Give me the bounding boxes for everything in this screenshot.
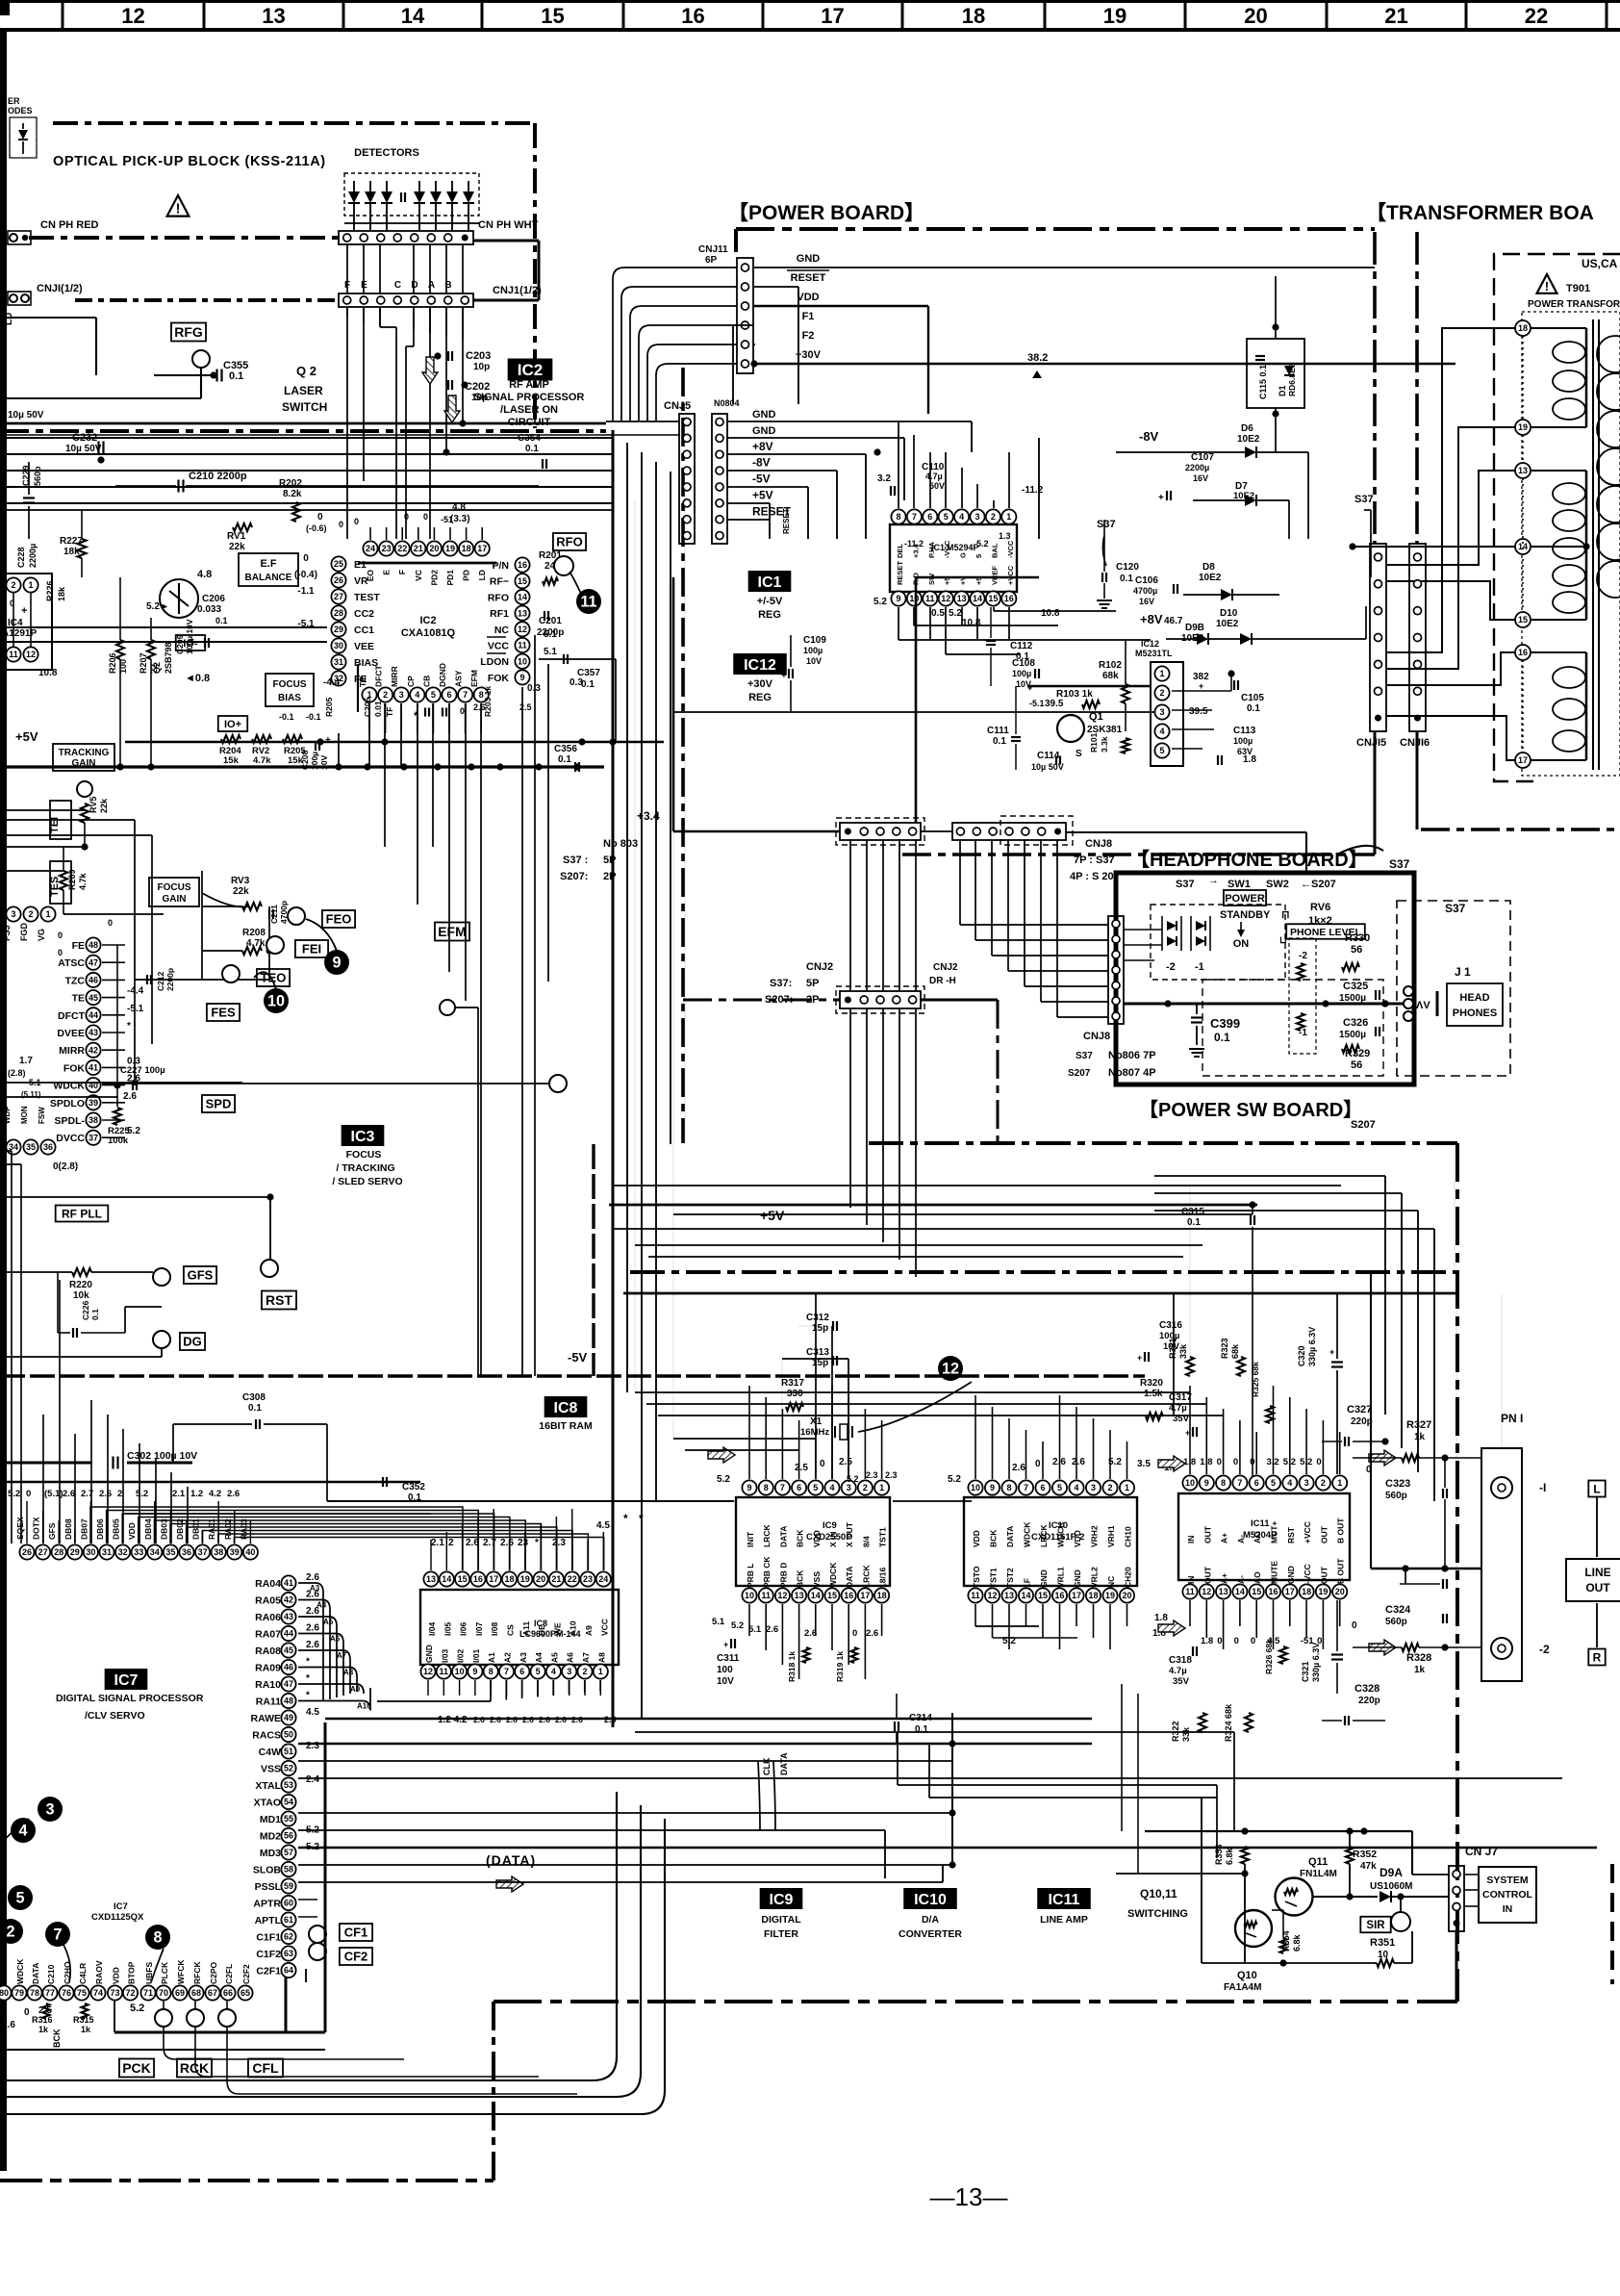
svg-text:M5231TL: M5231TL: [1135, 649, 1173, 658]
svg-text:VCC: VCC: [599, 1619, 609, 1636]
svg-text:5.2: 5.2: [8, 1489, 20, 1499]
svg-text:77: 77: [45, 1988, 55, 1998]
svg-text:R325 68k: R325 68k: [1251, 1362, 1260, 1397]
svg-text:48: 48: [89, 940, 98, 950]
svg-text:R352: R352: [1353, 1849, 1377, 1860]
svg-text:+8V: +8V: [752, 440, 773, 453]
svg-text:8: 8: [489, 1667, 494, 1676]
svg-text:STANDBY: STANDBY: [1220, 909, 1271, 921]
svg-text:SWITCHING: SWITCHING: [1127, 1908, 1188, 1920]
svg-text:+: +: [1158, 493, 1164, 503]
svg-text:R319 1k: R319 1k: [835, 1651, 845, 1682]
svg-text:18: 18: [1302, 1587, 1311, 1596]
svg-text:0: 0: [354, 517, 359, 526]
svg-text:64: 64: [284, 1966, 293, 1976]
svg-text:FOCUS: FOCUS: [346, 1149, 382, 1161]
svg-text:VC: VC: [414, 570, 423, 581]
svg-text:DATA: DATA: [778, 1526, 788, 1547]
svg-text:5: 5: [813, 1483, 818, 1492]
svg-text:23: 23: [382, 544, 392, 553]
svg-text:FGD: FGD: [19, 923, 29, 941]
svg-text:C1F2: C1F2: [256, 1949, 281, 1960]
svg-text:19: 19: [1105, 1591, 1115, 1600]
svg-text:4.7µ: 4.7µ: [1169, 1666, 1187, 1676]
svg-text:2.1: 2.1: [172, 1489, 186, 1499]
svg-text:0: 0: [58, 948, 63, 957]
svg-text:4.8: 4.8: [452, 502, 466, 513]
svg-text:0.1: 0.1: [558, 754, 571, 765]
svg-text:45: 45: [89, 993, 98, 1003]
svg-text:S37: S37: [1176, 879, 1195, 890]
svg-text:C210: C210: [46, 1964, 56, 1984]
svg-text:4700p: 4700p: [279, 901, 289, 924]
svg-text:FN1L4M: FN1L4M: [1300, 1869, 1337, 1879]
svg-text:1.5k: 1.5k: [1144, 1389, 1163, 1399]
svg-text:OUT: OUT: [1319, 1525, 1329, 1543]
svg-text:(-0.6): (-0.6): [306, 523, 327, 533]
svg-text:63: 63: [284, 1949, 293, 1958]
svg-text:RA03: RA03: [239, 1518, 248, 1540]
svg-text:1.8: 1.8: [1183, 1457, 1196, 1467]
svg-text:36: 36: [182, 1547, 191, 1557]
svg-text:*: *: [306, 1657, 310, 1668]
svg-text:XTAL: XTAL: [255, 1780, 281, 1792]
svg-text:CXA1081Q: CXA1081Q: [401, 627, 456, 639]
svg-text:2.3: 2.3: [866, 1470, 878, 1480]
svg-text:DFCT: DFCT: [374, 665, 384, 687]
svg-text:5: 5: [1159, 746, 1164, 755]
svg-text:560p: 560p: [1385, 1491, 1407, 1501]
svg-text:5.2: 5.2: [731, 1620, 744, 1631]
svg-text:17: 17: [1072, 1591, 1081, 1600]
svg-text:C324: C324: [1385, 1604, 1411, 1616]
svg-text:ATSC: ATSC: [58, 957, 85, 969]
svg-text:DB06: DB06: [95, 1518, 105, 1540]
svg-text:R327: R327: [1406, 1419, 1431, 1431]
svg-text:15: 15: [458, 1574, 468, 1584]
svg-text:IN: IN: [1503, 1903, 1513, 1915]
svg-text:IC12: IC12: [1141, 639, 1159, 649]
svg-text:FOK: FOK: [488, 673, 510, 684]
svg-text:6: 6: [446, 690, 451, 700]
svg-text:14: 14: [811, 1591, 821, 1600]
svg-text:1k: 1k: [38, 2025, 49, 2034]
svg-text:EFM: EFM: [469, 670, 479, 687]
svg-text:-1: -1: [1195, 961, 1204, 973]
svg-text:0.1: 0.1: [248, 1403, 262, 1414]
svg-text:69: 69: [175, 1988, 185, 1998]
svg-text:43: 43: [89, 1028, 98, 1037]
svg-text:10: 10: [909, 594, 919, 603]
svg-text:5.2: 5.2: [717, 1474, 730, 1485]
svg-text:2: 2: [1321, 1478, 1326, 1488]
svg-text:220p: 220p: [1358, 1696, 1380, 1706]
svg-text:5.2: 5.2: [1300, 1457, 1312, 1467]
svg-text:DB07: DB07: [79, 1518, 89, 1540]
svg-text:SWITCH: SWITCH: [282, 400, 327, 414]
svg-text:-11.2: -11.2: [904, 539, 924, 548]
svg-text:5: 5: [15, 1889, 24, 1906]
svg-text:CNJ2: CNJ2: [806, 961, 833, 973]
svg-text:2.5: 2.5: [839, 1457, 852, 1467]
svg-text:16V: 16V: [1193, 473, 1208, 483]
svg-text:BALANCE: BALANCE: [245, 573, 292, 583]
svg-text:6: 6: [797, 1483, 801, 1492]
svg-text:28: 28: [334, 608, 343, 618]
svg-text:6.8k: 6.8k: [1292, 1933, 1302, 1952]
svg-text:CLK: CLK: [762, 1757, 772, 1775]
svg-text:16BIT RAM: 16BIT RAM: [539, 1420, 593, 1432]
svg-text:10E2: 10E2: [1199, 573, 1222, 583]
svg-text:C2PO: C2PO: [209, 1961, 218, 1984]
svg-text:FOCUS: FOCUS: [158, 882, 191, 893]
svg-text:C328: C328: [1354, 1683, 1380, 1695]
svg-text:C226: C226: [81, 1300, 90, 1320]
svg-text:FS3: FS3: [2, 925, 12, 941]
svg-text:No 803: No 803: [603, 838, 638, 850]
svg-text:PN I: PN I: [1501, 1412, 1523, 1425]
svg-text:16: 16: [1268, 1587, 1278, 1596]
svg-text:59: 59: [284, 1881, 293, 1891]
svg-text:2: 2: [28, 909, 33, 919]
svg-text:SW: SW: [927, 573, 936, 585]
svg-text:A3: A3: [310, 1584, 320, 1593]
svg-text:S37 :: S37 :: [563, 855, 588, 866]
svg-text:BCK: BCK: [52, 2028, 62, 2048]
svg-text:2200µ: 2200µ: [28, 544, 38, 568]
svg-text:RF PLL: RF PLL: [62, 1207, 102, 1220]
svg-text:IC3: IC3: [351, 1129, 375, 1145]
svg-text:5.1: 5.1: [712, 1617, 725, 1627]
svg-text:WDCK: WDCK: [828, 1562, 838, 1588]
svg-text:A5: A5: [323, 1618, 334, 1626]
svg-text:73: 73: [110, 1988, 119, 1998]
svg-text:22: 22: [397, 544, 407, 553]
svg-text:C111: C111: [987, 726, 1009, 736]
svg-text:4.7k: 4.7k: [78, 872, 88, 890]
svg-text:10µ 50V: 10µ 50V: [65, 444, 102, 454]
svg-text:2.6: 2.6: [1052, 1457, 1066, 1467]
svg-text:15: 15: [1252, 1587, 1261, 1596]
svg-text:S37: S37: [1389, 857, 1410, 871]
svg-text:DATA: DATA: [779, 1752, 789, 1775]
svg-text:I/06: I/06: [459, 1622, 468, 1636]
svg-text:3: 3: [399, 690, 404, 700]
svg-text:C302 100µ 10V: C302 100µ 10V: [127, 1450, 197, 1462]
svg-text:Q10: Q10: [1237, 1970, 1257, 1981]
svg-text:VRH2: VRH2: [1090, 1525, 1100, 1547]
svg-text:TRACKING: TRACKING: [59, 748, 110, 758]
svg-text:S: S: [1076, 749, 1082, 759]
svg-text:50: 50: [284, 1730, 293, 1740]
svg-text:1: 1: [45, 909, 50, 919]
svg-text:J 1: J 1: [1455, 965, 1471, 979]
svg-text:A7: A7: [581, 1652, 591, 1663]
svg-text:CONVERTER: CONVERTER: [899, 1928, 962, 1940]
svg-text:A9: A9: [350, 1685, 361, 1694]
svg-text:13: 13: [262, 4, 285, 28]
svg-text:2.6: 2.6: [804, 1628, 817, 1639]
svg-text:23: 23: [583, 1574, 593, 1584]
svg-text:5.2: 5.2: [873, 597, 887, 607]
svg-text:/LASER ON: /LASER ON: [500, 404, 558, 416]
svg-text:A10: A10: [357, 1702, 371, 1711]
svg-text:C115 0.1: C115 0.1: [1258, 365, 1268, 399]
svg-text:A+: A+: [1220, 1573, 1229, 1584]
svg-text:28: 28: [54, 1547, 63, 1557]
svg-text:CF2: CF2: [344, 1950, 368, 1964]
svg-text:Q 2: Q 2: [296, 364, 316, 378]
svg-text:R324 68k: R324 68k: [1224, 1703, 1233, 1742]
svg-text:R102: R102: [1099, 660, 1122, 671]
svg-text:+5V: +5V: [752, 489, 773, 502]
svg-text:P/N: P/N: [492, 560, 509, 572]
svg-text:20: 20: [1244, 4, 1267, 28]
svg-text:I/07: I/07: [474, 1622, 484, 1636]
svg-text:17: 17: [1285, 1587, 1295, 1596]
svg-text:20: 20: [1122, 1591, 1131, 1600]
svg-text:TSTO: TSTO: [972, 1566, 981, 1588]
svg-text:CXD2550P: CXD2550P: [806, 1532, 852, 1543]
svg-text:37: 37: [198, 1547, 208, 1557]
svg-text:67: 67: [208, 1988, 217, 1998]
svg-text:4.5: 4.5: [596, 1520, 610, 1531]
svg-text:21: 21: [551, 1574, 561, 1584]
svg-text:79: 79: [14, 1988, 24, 1998]
svg-text:17: 17: [489, 1574, 498, 1584]
svg-text:R321: R321: [1168, 1338, 1177, 1359]
svg-text:46: 46: [89, 976, 98, 985]
svg-text:CNJI6: CNJI6: [1400, 737, 1430, 749]
svg-text:7P : S37: 7P : S37: [1074, 855, 1115, 866]
svg-text:OUT: OUT: [1319, 1566, 1329, 1584]
svg-text:DATA: DATA: [1005, 1526, 1015, 1547]
svg-text:13: 13: [426, 1574, 436, 1584]
svg-text:IC10: IC10: [1049, 1520, 1068, 1531]
svg-text:10E2: 10E2: [1237, 434, 1260, 445]
svg-text:0: 0: [26, 1489, 31, 1499]
svg-text:RFG: RFG: [174, 324, 203, 340]
svg-text:100µ: 100µ: [1012, 669, 1031, 678]
svg-text:R220: R220: [69, 1280, 92, 1290]
svg-text:+/-5V: +/-5V: [757, 596, 783, 607]
svg-text:C325: C325: [1343, 981, 1368, 992]
svg-text:A4: A4: [534, 1652, 544, 1663]
svg-text:GND: GND: [752, 409, 776, 421]
svg-text:33: 33: [134, 1547, 143, 1557]
svg-text:RA09: RA09: [255, 1663, 281, 1674]
svg-text:18/16: 18/16: [878, 1567, 888, 1588]
svg-text:15: 15: [518, 576, 527, 586]
svg-text:CH20: CH20: [1124, 1567, 1133, 1588]
svg-text:RF−: RF−: [490, 576, 509, 588]
svg-text:E1: E1: [354, 559, 367, 571]
svg-text:55: 55: [284, 1814, 293, 1824]
svg-text:Q1: Q1: [1089, 711, 1103, 723]
svg-text:【HEADPHONE BOARD】: 【HEADPHONE BOARD】: [1130, 849, 1368, 871]
svg-text:C227 100µ: C227 100µ: [120, 1065, 165, 1076]
svg-text:LINE: LINE: [1584, 1566, 1610, 1579]
svg-text:E: E: [382, 570, 392, 575]
svg-text:12: 12: [518, 625, 527, 634]
svg-text:10.8: 10.8: [1041, 608, 1060, 619]
svg-text:I/03: I/03: [440, 1649, 449, 1663]
svg-text:0: 0: [303, 553, 309, 564]
svg-text:IC1: IC1: [758, 574, 782, 591]
svg-text:+: +: [1027, 683, 1032, 693]
svg-text:2: 2: [863, 1483, 868, 1492]
svg-text:DB05: DB05: [112, 1518, 121, 1540]
svg-text:44: 44: [284, 1629, 293, 1639]
svg-text:0.01: 0.01: [373, 701, 383, 717]
svg-text:2SB798: 2SB798: [164, 642, 173, 674]
svg-text:13: 13: [795, 1591, 804, 1600]
svg-text:OUT: OUT: [1585, 1581, 1610, 1594]
svg-text:31: 31: [102, 1547, 112, 1557]
svg-text:A-: A-: [1236, 1575, 1246, 1584]
svg-text:DG: DG: [183, 1335, 202, 1349]
svg-text:C107: C107: [1191, 452, 1214, 463]
svg-text:-VCC: -VCC: [1303, 1564, 1312, 1584]
svg-text:C327: C327: [1347, 1404, 1372, 1416]
svg-text:14: 14: [518, 593, 527, 602]
svg-text:3: 3: [975, 512, 979, 522]
svg-text:15p: 15p: [812, 1323, 828, 1334]
svg-text:62: 62: [284, 1932, 293, 1942]
svg-text:BCK: BCK: [796, 1569, 805, 1588]
svg-text:39.5: 39.5: [1189, 706, 1208, 717]
svg-text:0: 0: [460, 706, 465, 716]
svg-text:!: !: [1545, 279, 1549, 293]
svg-text:E.F: E.F: [260, 558, 276, 570]
svg-text:C308: C308: [242, 1392, 266, 1403]
svg-text:DOTX: DOTX: [32, 1517, 41, 1540]
svg-text:MD1: MD1: [260, 1814, 281, 1825]
svg-text:5: 5: [975, 554, 983, 558]
svg-text:/ SLED SERVO: / SLED SERVO: [332, 1176, 402, 1187]
svg-text:19: 19: [520, 1574, 530, 1584]
svg-text:CNJ5: CNJ5: [664, 400, 691, 412]
svg-text:-4.4: -4.4: [323, 677, 341, 688]
svg-text:RACS: RACS: [252, 1730, 281, 1742]
svg-text:RF1: RF1: [490, 608, 509, 620]
svg-text:0.033: 0.033: [197, 604, 221, 615]
svg-text:A9: A9: [584, 1625, 594, 1636]
svg-text:5.2: 5.2: [130, 2003, 144, 2014]
svg-text:0: 0: [24, 2007, 30, 2018]
svg-text:C326: C326: [1343, 1017, 1368, 1029]
svg-text:GND: GND: [797, 253, 821, 265]
svg-text:68k: 68k: [1102, 671, 1119, 681]
svg-text:37: 37: [89, 1133, 98, 1142]
svg-text:R226: R226: [45, 580, 55, 601]
svg-text:2.6: 2.6: [99, 1489, 112, 1499]
svg-text:2.6: 2.6: [306, 1640, 319, 1650]
svg-text:OPTICAL PICK-UP BLOCK (KSS-211: OPTICAL PICK-UP BLOCK (KSS-211A): [53, 154, 326, 169]
svg-text:A1: A1: [487, 1652, 496, 1663]
svg-text:DB03: DB03: [159, 1518, 168, 1540]
svg-text:10p: 10p: [473, 362, 490, 372]
svg-text:PLCK: PLCK: [160, 1961, 169, 1984]
svg-text:R318 1k: R318 1k: [787, 1651, 797, 1682]
svg-text:+: +: [325, 735, 331, 746]
svg-text:+5V: +5V: [15, 729, 38, 744]
svg-text:IC1: IC1: [931, 543, 945, 552]
svg-text:22: 22: [1525, 4, 1548, 28]
svg-text:14: 14: [1021, 1591, 1030, 1600]
svg-text:42: 42: [284, 1595, 293, 1605]
svg-text:AO: AO: [1253, 1571, 1262, 1584]
svg-text:A3: A3: [519, 1652, 528, 1663]
svg-text:D9B: D9B: [1185, 623, 1204, 633]
svg-text:C2FL: C2FL: [224, 1964, 234, 1984]
svg-text:21: 21: [414, 544, 423, 553]
svg-text:9: 9: [472, 1667, 477, 1676]
svg-text:D6: D6: [1241, 423, 1253, 434]
svg-text:PCK: PCK: [122, 2060, 151, 2076]
svg-text:12: 12: [26, 650, 36, 659]
svg-text:DATA: DATA: [845, 1567, 854, 1588]
svg-text:52: 52: [284, 1764, 293, 1773]
svg-text:560p: 560p: [33, 466, 42, 486]
svg-text:R202: R202: [279, 478, 302, 489]
svg-text:BTOP: BTOP: [127, 1961, 137, 1984]
svg-text:【TRANSFORMER BOA: 【TRANSFORMER BOA: [1366, 202, 1594, 224]
svg-text:*: *: [535, 1538, 539, 1548]
svg-text:POWER: POWER: [1225, 893, 1265, 905]
svg-text:4: 4: [1287, 1478, 1292, 1488]
svg-text:2: 2: [11, 580, 15, 590]
svg-text:FILTER: FILTER: [764, 1928, 798, 1940]
svg-text:S37: S37: [1076, 1051, 1093, 1061]
svg-text:*: *: [623, 1512, 628, 1525]
svg-text:10.8: 10.8: [962, 618, 981, 628]
svg-text:IC7: IC7: [114, 1901, 128, 1912]
svg-text:→: →: [1208, 875, 1219, 886]
svg-text:RA08: RA08: [255, 1645, 281, 1657]
svg-text:1.8: 1.8: [1201, 1636, 1213, 1646]
svg-text:0.1: 0.1: [1187, 1217, 1201, 1228]
svg-text:RA11: RA11: [256, 1696, 281, 1708]
svg-text:R326 68k: R326 68k: [1264, 1639, 1274, 1674]
svg-text:-2: -2: [1539, 1643, 1550, 1656]
svg-text:RFO: RFO: [488, 592, 509, 603]
svg-text:5.1: 5.1: [544, 647, 557, 657]
svg-text:2: 2: [6, 1923, 14, 1940]
svg-text:1: 1: [1159, 669, 1164, 678]
svg-text:VDD: VDD: [972, 1530, 981, 1547]
svg-text:35: 35: [165, 1547, 175, 1557]
svg-text:C321: C321: [1301, 1661, 1310, 1682]
svg-text:5.2: 5.2: [1108, 1457, 1122, 1467]
svg-text:5.2: 5.2: [949, 608, 962, 619]
svg-text:VSS: VSS: [261, 1764, 281, 1775]
svg-text:7: 7: [912, 512, 917, 522]
svg-text:SW1: SW1: [1228, 879, 1251, 890]
svg-text:1: 1: [598, 1667, 603, 1676]
svg-text:RA02: RA02: [223, 1518, 233, 1540]
svg-text:4P : S 207: 4P : S 207: [1070, 871, 1120, 882]
svg-text:0: 0: [317, 512, 323, 523]
svg-text:16: 16: [844, 1591, 853, 1600]
svg-text:LRCK: LRCK: [861, 1565, 871, 1588]
svg-text:C112: C112: [1010, 641, 1033, 651]
svg-text:MD2: MD2: [260, 1831, 281, 1843]
svg-text:RESET: RESET: [896, 561, 904, 585]
svg-text:TST2: TST2: [1005, 1568, 1015, 1588]
svg-text:1500µ: 1500µ: [1339, 993, 1366, 1004]
svg-text:CNJ8: CNJ8: [1083, 1031, 1110, 1042]
